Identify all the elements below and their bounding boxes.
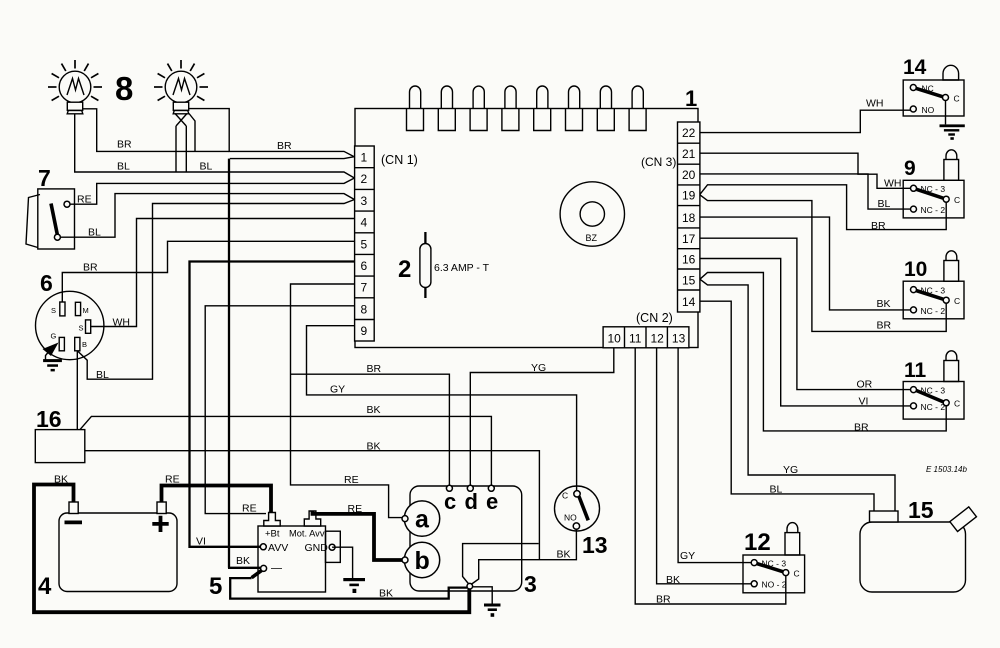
svg-text:BK: BK: [367, 404, 381, 416]
wire GY CN1 pin 9 to switch13 C: [307, 326, 577, 491]
svg-text:WH: WH: [884, 178, 902, 190]
starter component 15: [860, 507, 976, 592]
svg-text:9: 9: [904, 157, 916, 180]
svg-text:8: 8: [361, 302, 368, 316]
svg-text:8: 8: [115, 70, 133, 107]
wire BR branch to engine c: [291, 374, 450, 485]
svg-text:1: 1: [361, 151, 368, 165]
wire VI CN1 pin 6 to relay AVV: [190, 262, 355, 547]
svg-text:10: 10: [904, 258, 927, 281]
wire BK bus to relay minus: [228, 159, 261, 568]
wire junction V-branch: [463, 544, 539, 584]
svg-text:16: 16: [682, 253, 696, 267]
svg-text:VI: VI: [196, 536, 206, 548]
wire BK switch13 NO to junction: [471, 529, 576, 584]
svg-text:OR: OR: [857, 379, 873, 391]
svg-text:17: 17: [682, 232, 696, 246]
svg-text:WH: WH: [866, 98, 884, 110]
svg-text:NO: NO: [564, 513, 577, 523]
wire BK CN3 pin 18 to SW10 NC-2: [700, 217, 911, 310]
svg-text:c: c: [444, 489, 456, 514]
svg-text:Mot. Avv: Mot. Avv: [289, 529, 325, 539]
wire BL CN3 pin 14 to component 15: [700, 301, 874, 511]
wire YG CN2 pin 10 to engine d: [470, 348, 614, 486]
svg-text:16: 16: [36, 406, 62, 432]
microswitch SW9: [903, 150, 964, 218]
svg-text:NC - 2: NC - 2: [921, 205, 946, 215]
svg-text:22: 22: [682, 126, 696, 140]
svg-text:BR: BR: [367, 363, 382, 375]
svg-text:NC - 3: NC - 3: [921, 286, 946, 296]
svg-text:M: M: [83, 306, 89, 315]
wire BR CN2 pin 11 to SW12 C: [635, 348, 786, 604]
svg-text:NC - 3: NC - 3: [762, 558, 787, 568]
wire BR ignition S to CN1 pin 5: [62, 241, 354, 302]
svg-text:1: 1: [685, 86, 697, 111]
svg-text:YG: YG: [531, 362, 546, 374]
relay 5: [252, 511, 341, 592]
svg-text:GND: GND: [305, 542, 329, 554]
svg-text:10: 10: [608, 332, 622, 346]
wire BK relay minus lever to junction: [230, 578, 467, 599]
svg-text:BZ: BZ: [586, 233, 598, 243]
ground at SW14: [940, 100, 965, 140]
svg-text:18: 18: [682, 211, 696, 225]
ground at ignition G pin: [43, 343, 62, 372]
svg-text:6.3 AMP - T: 6.3 AMP - T: [434, 262, 490, 274]
microswitch SW11: [903, 351, 964, 419]
svg-text:+Bt: +Bt: [265, 529, 280, 540]
wire RE battery positive to relay +Bt: [162, 486, 272, 513]
lamp2 base branch wires: [175, 114, 195, 173]
svg-text:NC - 2: NC - 2: [921, 306, 946, 316]
svg-text:BR: BR: [83, 262, 98, 274]
svg-text:RE: RE: [344, 474, 359, 486]
fuse F1 6.3 AMP - T: [398, 232, 490, 298]
wire BR SW9 C to CN3 pin 19 (top edge): [700, 185, 946, 230]
microswitch SW12: [743, 523, 805, 593]
wire RE relay Mot.Avv to engine b: [313, 512, 403, 561]
svg-text:d: d: [465, 489, 478, 514]
svg-text:6: 6: [40, 270, 53, 296]
wire BK CN2 pin 12 to SW12 NO-2: [657, 348, 752, 584]
svg-text:3: 3: [524, 571, 537, 597]
svg-text:G: G: [51, 332, 57, 341]
wire BL CN3 pin 20 to SW9 NC-2: [700, 174, 911, 209]
svg-text:—: —: [271, 563, 282, 575]
switch SW7: [26, 189, 75, 249]
svg-text:7: 7: [38, 165, 51, 191]
engine 3: [402, 485, 522, 591]
box 16: [35, 430, 85, 463]
svg-text:12: 12: [744, 529, 771, 556]
svg-text:BR: BR: [877, 320, 892, 332]
wire WH CN3 pin 21 to SW9 NC-3: [700, 153, 911, 188]
svg-text:S: S: [51, 306, 56, 315]
svg-text:BR: BR: [117, 139, 132, 151]
svg-text:BL: BL: [96, 369, 109, 381]
wire GY CN2 pin 13 to SW12 NC-3: [678, 348, 751, 563]
svg-text:NC - 2: NC - 2: [921, 402, 946, 412]
svg-text:WH: WH: [113, 317, 131, 329]
svg-text:E 1503.14b: E 1503.14b: [926, 465, 967, 474]
svg-text:14: 14: [682, 295, 696, 309]
wire RE CN1 pin 7 to engine a: [291, 284, 403, 518]
svg-text:2: 2: [398, 256, 411, 283]
wire VI CN3 pin 16 to SW11 NC-2: [700, 259, 911, 406]
svg-text:15: 15: [682, 274, 696, 288]
svg-text:11: 11: [629, 332, 642, 346]
svg-text:BR: BR: [656, 594, 671, 606]
svg-text:3: 3: [361, 194, 368, 208]
wire BL lamp1 to CN1 pin 2 (top edge): [75, 114, 355, 178]
buzzer BZ: [560, 182, 624, 246]
wire WH ignition S to CN1 pin 4: [91, 219, 355, 327]
svg-text:C: C: [954, 399, 960, 409]
svg-text:11: 11: [904, 359, 927, 382]
wire BR lamp2 to CN1 pin 1 (double-line arrow): [189, 109, 354, 159]
svg-text:VI: VI: [859, 396, 869, 408]
svg-text:C: C: [794, 569, 800, 579]
svg-text:6: 6: [361, 259, 368, 273]
svg-text:4: 4: [361, 216, 368, 230]
wire RE CN1 pin 8 to relay +Bt: [205, 306, 354, 514]
svg-text:4: 4: [38, 573, 52, 600]
svg-text:BL: BL: [878, 198, 891, 210]
board top pin tubes: [407, 86, 647, 131]
svg-text:19: 19: [682, 189, 696, 203]
svg-text:RE: RE: [77, 194, 92, 206]
svg-text:BR: BR: [871, 220, 886, 232]
svg-text:13: 13: [582, 532, 608, 558]
CN3 pin boxes 22-14: [678, 122, 700, 312]
svg-text:RE: RE: [165, 474, 180, 486]
microswitch SW10: [903, 251, 964, 319]
svg-text:NO - 2: NO - 2: [762, 580, 787, 590]
ignition switch SW6: [35, 291, 103, 359]
svg-text:7: 7: [361, 281, 368, 295]
svg-text:e: e: [486, 489, 498, 514]
wire BR CN3 pin 15 to SW11 C: [700, 273, 946, 431]
svg-text:GY: GY: [330, 384, 345, 396]
svg-text:BK: BK: [557, 549, 571, 561]
ground at relay GND: [332, 547, 365, 593]
wire BR lamp1 to junction: [83, 109, 229, 152]
svg-text:S: S: [79, 324, 84, 333]
CN2 pin boxes 10-13: [603, 327, 689, 348]
wire OR CN3 pin 17 to SW11 NC-3: [700, 238, 911, 389]
ground at engine junction: [473, 587, 501, 617]
wire BR SW10 C to CN3 pin 19 (bottom edge): [700, 195, 946, 332]
svg-text:BK: BK: [367, 441, 381, 453]
svg-text:(CN 2): (CN 2): [636, 311, 673, 325]
wire YG CN3 pin 15 to component 15: [700, 279, 895, 511]
svg-text:15: 15: [908, 497, 934, 523]
wire ignition B to box 16: [76, 351, 78, 430]
svg-text:14: 14: [903, 56, 927, 79]
svg-text:5: 5: [361, 237, 368, 251]
svg-text:21: 21: [682, 147, 696, 161]
wire BK box16 to engine e: [80, 416, 491, 485]
svg-text:BK: BK: [379, 588, 393, 600]
svg-text:20: 20: [682, 168, 696, 182]
svg-text:RE: RE: [242, 503, 257, 515]
battery 4: [59, 502, 177, 592]
wire WH CN3 pin 22 to SW14 NO: [700, 110, 910, 132]
svg-text:12: 12: [651, 332, 665, 346]
svg-text:BL: BL: [88, 227, 101, 239]
svg-text:RE: RE: [348, 503, 363, 515]
svg-text:2: 2: [361, 172, 368, 186]
engine ground junction node: [467, 583, 473, 589]
svg-text:BL: BL: [200, 161, 213, 173]
svg-text:BL: BL: [770, 484, 783, 496]
svg-text:BK: BK: [877, 298, 891, 310]
svg-text:9: 9: [361, 324, 368, 338]
svg-text:(CN 1): (CN 1): [381, 153, 418, 167]
lamp 8 (left bulb): [48, 60, 102, 114]
svg-text:a: a: [415, 506, 430, 534]
wire RE switch7 to CN1 pin 2 (bottom edge): [70, 178, 354, 204]
svg-text:GY: GY: [680, 550, 695, 562]
svg-text:b: b: [415, 547, 430, 575]
svg-text:BK: BK: [54, 474, 68, 486]
wire BK box16 to engine ground junction: [85, 451, 540, 560]
svg-text:BK: BK: [236, 555, 250, 567]
svg-text:C: C: [954, 94, 960, 104]
wire BL switch7 to CN1 pin 3 (top edge): [60, 194, 354, 238]
svg-text:AVV: AVV: [268, 542, 288, 554]
svg-text:C: C: [562, 491, 568, 501]
svg-text:YG: YG: [783, 464, 798, 476]
svg-text:BR: BR: [854, 422, 869, 434]
wire BL ignition B to CN1 pin 3 (bottom edge): [77, 200, 354, 380]
svg-text:NO: NO: [922, 105, 935, 115]
svg-text:5: 5: [209, 573, 222, 600]
svg-text:BK: BK: [666, 574, 680, 586]
wire BK battery negative loop: [34, 485, 469, 613]
svg-text:NC - 3: NC - 3: [921, 184, 946, 194]
svg-text:C: C: [954, 296, 960, 306]
svg-text:13: 13: [672, 332, 686, 346]
svg-text:BL: BL: [117, 161, 130, 173]
control board U1 outline: [355, 109, 698, 348]
svg-text:(CN 3): (CN 3): [641, 155, 676, 169]
lamp 8 (right bulb): [154, 60, 208, 114]
microswitch SW14: [903, 65, 964, 116]
CN1 pin boxes 1-9: [355, 146, 375, 341]
svg-text:NC: NC: [922, 84, 934, 94]
svg-text:B: B: [82, 340, 87, 349]
svg-text:BR: BR: [277, 140, 292, 152]
svg-text:C: C: [954, 195, 960, 205]
svg-text:NC - 3: NC - 3: [921, 386, 946, 396]
switch SW13: [555, 486, 600, 531]
